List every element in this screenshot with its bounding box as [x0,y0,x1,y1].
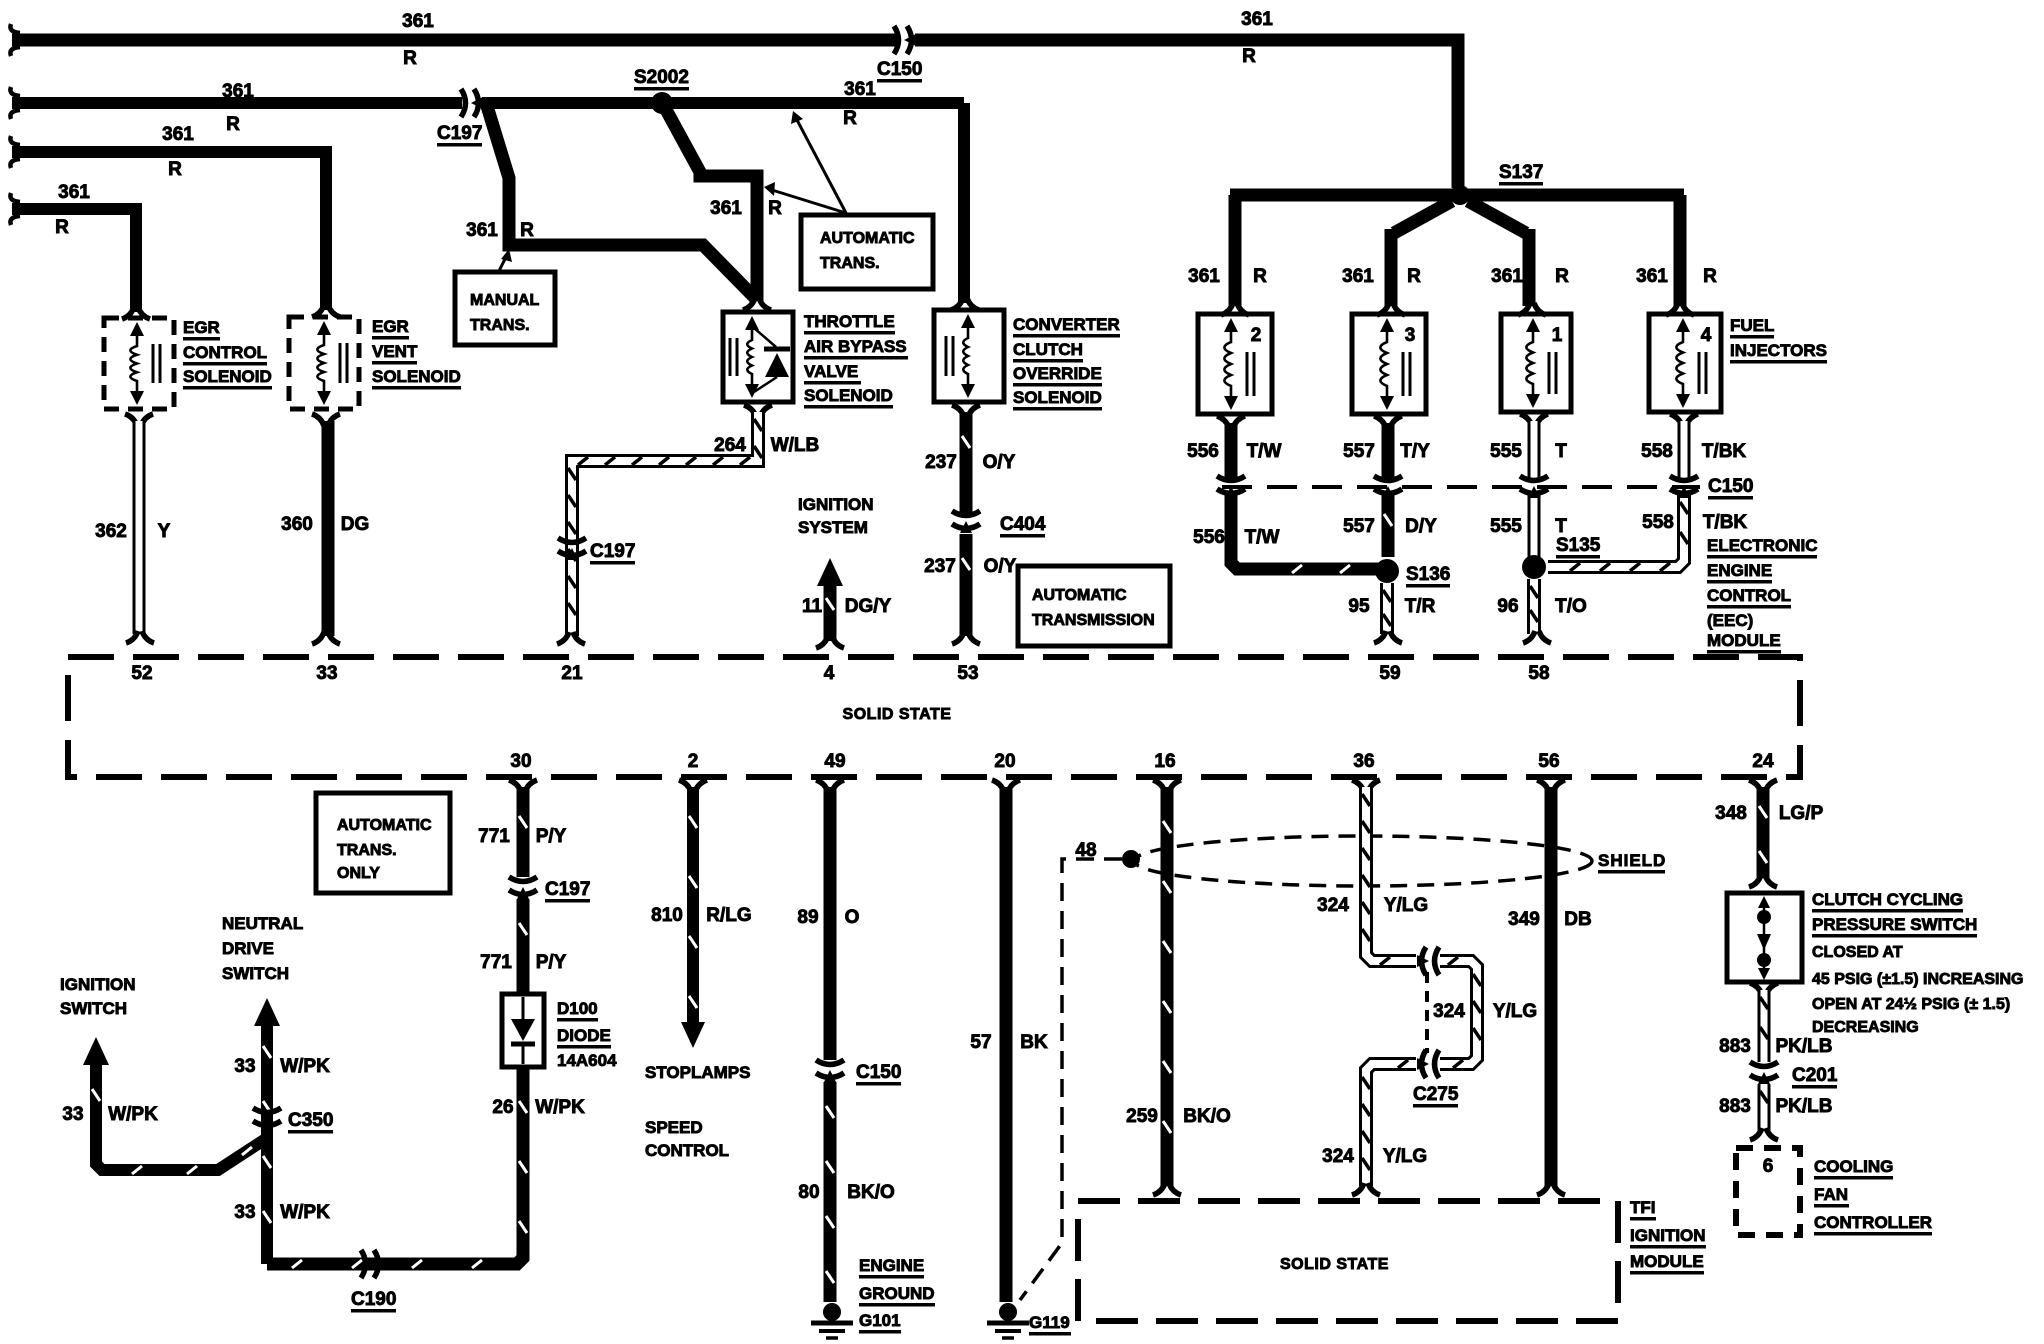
label ENGINE GROUND G101 [859,1256,935,1334]
svg-text:R: R [768,198,782,219]
label 771 P/Y lower [480,952,566,973]
svg-text:361: 361 [162,124,194,145]
label NEUTRAL DRIVE SWITCH [222,914,303,983]
label 555 T upper [1490,441,1567,462]
label TFI IGNITION MODULE [1630,1198,1706,1275]
svg-text:P/Y: P/Y [536,826,567,847]
label 324 Y/LG bottom [1322,1146,1427,1167]
label 883 PK/LB lower [1719,1096,1832,1117]
svg-text:W/LB: W/LB [771,435,820,456]
svg-text:EGR: EGR [183,318,220,337]
label 361 R wire4 [55,182,90,238]
svg-text:52: 52 [131,663,152,684]
svg-text:R: R [520,220,534,241]
svg-text:S135: S135 [1556,535,1601,556]
svg-text:555: 555 [1490,441,1522,462]
svg-text:FUEL: FUEL [1730,316,1774,335]
svg-text:T/Y: T/Y [1400,441,1430,462]
svg-text:11: 11 [802,596,823,617]
svg-text:361: 361 [58,182,90,203]
svg-text:MODULE: MODULE [1707,631,1781,650]
wire 558 T/BK injector4 to splice S135 [1548,414,1698,571]
svg-text:33: 33 [234,1202,255,1223]
svg-text:3: 3 [1405,325,1416,346]
label 264 W/LB [714,435,819,456]
label THROTTLE AIR BYPASS VALVE SOLENOID [804,312,908,409]
svg-text:30: 30 [510,751,531,772]
ground G119 [987,1303,1029,1338]
svg-text:LG/P: LG/P [1779,803,1824,824]
wire 883 PK/LB upper [1750,983,1778,1062]
svg-text:C197: C197 [437,123,482,144]
svg-text:SOLENOID: SOLENOID [804,386,893,405]
EEC top pin numbers [131,663,1549,684]
label 96 T/O [1497,596,1586,617]
diode D100 [502,994,544,1067]
svg-text:R/LG: R/LG [706,905,751,926]
svg-text:237: 237 [924,556,956,577]
svg-text:T: T [1555,516,1567,537]
svg-text:ENGINE: ENGINE [859,1256,924,1275]
fuel injector 3 [1352,314,1426,414]
svg-text:SOLENOID: SOLENOID [183,367,272,386]
label 33 W/PK ignition [62,1104,158,1125]
label 237 O/Y lower [924,556,1017,577]
svg-text:COOLING: COOLING [1814,1157,1893,1176]
svg-text:EGR: EGR [372,317,409,336]
svg-text:348: 348 [1715,803,1747,824]
svg-text:361: 361 [1342,266,1374,287]
svg-text:349: 349 [1508,909,1540,930]
svg-text:4: 4 [824,663,835,684]
svg-text:VALVE: VALVE [804,362,858,381]
svg-text:T: T [1555,441,1567,462]
connector C350 [253,1108,281,1130]
svg-text:557: 557 [1343,441,1375,462]
label 361 R manual branch [466,220,534,241]
svg-text:T/O: T/O [1555,596,1587,617]
svg-text:SYSTEM: SYSTEM [798,518,868,537]
label 883 PK/LB upper [1719,1036,1832,1057]
svg-text:361: 361 [1188,266,1220,287]
svg-text:AUTOMATIC: AUTOMATIC [820,230,915,247]
label 349 DB [1508,909,1592,930]
label CONVERTER CLUTCH OVERRIDE SOLENOID [1013,315,1120,411]
connector C197 bottom [509,877,537,899]
svg-text:TRANS.: TRANS. [337,842,397,859]
svg-text:361: 361 [402,11,434,32]
svg-text:VENT: VENT [372,342,418,361]
svg-text:R: R [55,217,69,238]
label EGR VENT SOLENOID [372,317,461,390]
svg-text:810: 810 [651,905,683,926]
svg-text:T/W: T/W [1245,527,1280,548]
svg-text:O: O [845,907,860,928]
EGR control solenoid [104,318,174,409]
wire 810 R/LG pin 2 to stoplamps [679,780,707,1048]
svg-text:361: 361 [222,81,254,102]
svg-text:P/Y: P/Y [536,952,567,973]
clutch cycling pressure switch [1727,893,1802,982]
connector C150 injector4 [1670,476,1698,498]
svg-text:49: 49 [824,751,845,772]
svg-text:C150: C150 [1708,476,1753,497]
svg-text:GROUND: GROUND [859,1284,935,1303]
splice S2002 [651,92,673,114]
label CLUTCH CYCLING PRESSURE SWITCH text block [1812,890,2024,1036]
svg-text:D100: D100 [557,999,598,1018]
svg-text:Y/LG: Y/LG [1383,1146,1427,1167]
label EGR CONTROL SOLENOID [183,318,272,390]
svg-text:CONTROL: CONTROL [183,343,267,362]
svg-text:C201: C201 [1792,1065,1838,1086]
svg-text:C350: C350 [288,1110,333,1131]
label 361 R wire1 right [1241,9,1273,67]
wire 33 W/PK neutral drive switch [254,998,280,1264]
shield ellipse [1134,836,1592,886]
label 348 LG/P [1715,803,1823,824]
svg-text:DRIVE: DRIVE [222,939,274,958]
svg-text:W/PK: W/PK [535,1097,585,1118]
label ELECTRONIC ENGINE CONTROL (EEC) MODULE [1707,536,1818,654]
label 361 R wire3 [162,124,194,180]
svg-text:95: 95 [1348,596,1370,617]
label 556 T/W lower [1193,527,1279,548]
label 555 T lower [1490,516,1567,537]
svg-text:556: 556 [1193,527,1225,548]
svg-text:R: R [1555,266,1569,287]
label COOLING FAN CONTROLLER [1814,1157,1932,1236]
connector C150 bottom [816,1060,844,1082]
svg-text:R: R [403,48,417,69]
svg-text:R: R [1253,266,1267,287]
wire 96 T/O from S135 to pin 58 [1523,579,1551,643]
svg-text:INJECTORS: INJECTORS [1730,341,1827,360]
svg-text:771: 771 [480,952,512,973]
svg-text:BK/O: BK/O [1183,1106,1231,1127]
label 57 BK [970,1032,1048,1053]
svg-text:33: 33 [234,1056,255,1077]
TFI ignition module box [1078,1201,1618,1321]
svg-text:C197: C197 [590,541,635,562]
box MANUAL TRANS [455,272,555,345]
label IGNITION SYSTEM [798,495,874,537]
svg-text:D/Y: D/Y [1405,516,1437,537]
svg-text:T/BK: T/BK [1703,512,1748,533]
svg-text:IGNITION: IGNITION [60,975,136,994]
connector C404 [952,511,980,533]
label 557 T/Y [1343,441,1430,462]
svg-text:96: 96 [1497,596,1518,617]
dashed mate line C275 [1425,972,1429,1053]
connector C275 upper half [1417,947,1439,975]
label 810 R/LG [651,905,752,926]
svg-text:CONTROL: CONTROL [1707,586,1791,605]
svg-text:361: 361 [710,198,742,219]
svg-text:S136: S136 [1406,564,1450,585]
svg-text:SWITCH: SWITCH [60,999,127,1018]
svg-text:58: 58 [1528,663,1549,684]
label 361 R wire2 right [843,79,876,129]
svg-text:CLUTCH: CLUTCH [1013,340,1083,359]
svg-text:362: 362 [95,521,127,542]
svg-text:DB: DB [1564,909,1591,930]
svg-text:360: 360 [281,514,313,535]
wire 557 injector3 to splice S136 [1374,416,1402,557]
svg-text:C150: C150 [856,1062,901,1083]
wire 95 T/R from S136 to pin 59 [1374,583,1402,643]
svg-text:21: 21 [561,663,583,684]
connector C275 lower half [1417,1050,1439,1078]
wire 348 LG/P pin 24 [1749,780,1777,887]
svg-text:PK/LB: PK/LB [1776,1036,1833,1057]
svg-text:CONTROL: CONTROL [645,1141,729,1160]
svg-text:OVERRIDE: OVERRIDE [1013,364,1102,383]
svg-text:20: 20 [994,751,1015,772]
label 33 W/PK below C350 [234,1202,330,1223]
svg-text:R: R [1407,266,1421,287]
wire 48 shield drain to G119 [1020,859,1122,1300]
svg-text:DG: DG [341,514,370,535]
svg-text:264: 264 [714,435,746,456]
svg-text:883: 883 [1719,1036,1751,1057]
svg-text:C404: C404 [1000,514,1046,535]
annotation arrow automatic trans to wire2 [791,111,846,213]
wire 11 DG/Y to ignition system from pin 4 [816,558,844,648]
splice shield drain dot [1122,850,1140,868]
wire 883 PK/LB lower [1750,1084,1778,1140]
wire 360 DG from EGR vent to pin 33 [312,414,340,644]
wire 555 T injector1 to splice S135 [1520,414,1548,557]
label 558 T/BK lower [1642,512,1747,533]
svg-text:PRESSURE SWITCH: PRESSURE SWITCH [1812,915,1977,934]
svg-text:AIR BYPASS: AIR BYPASS [804,337,907,356]
svg-text:556: 556 [1187,441,1219,462]
svg-text:R: R [1703,266,1717,287]
svg-text:36: 36 [1353,751,1374,772]
wire 57 BK pin 20 [992,780,1020,1302]
svg-text:ELECTRONIC: ELECTRONIC [1707,536,1818,555]
svg-text:26: 26 [492,1097,513,1118]
svg-text:237: 237 [925,452,957,473]
svg-text:G101: G101 [859,1311,901,1330]
svg-text:16: 16 [1154,751,1175,772]
wire 361 R feed 1 (top horizontal) [10,24,1458,188]
svg-text:SOLID STATE: SOLID STATE [1280,1256,1389,1273]
svg-text:R: R [843,108,857,129]
label 11 DG/Y [802,596,892,617]
svg-text:558: 558 [1641,441,1673,462]
svg-text:G119: G119 [1029,1313,1070,1332]
label 361 R wire2 left [222,81,254,135]
splice S136 [1375,559,1399,583]
svg-text:24: 24 [1752,751,1774,772]
svg-text:57: 57 [970,1032,991,1053]
label 556 T/W upper [1187,441,1281,462]
svg-text:89: 89 [797,907,818,928]
EGR vent solenoid [289,317,359,409]
wire 324 Y/LG C275 jumper [1440,957,1481,1068]
svg-text:STOPLAMPS: STOPLAMPS [645,1063,750,1082]
svg-text:361: 361 [1241,9,1273,30]
svg-text:S2002: S2002 [634,67,689,88]
connector C197 lower [558,538,586,560]
svg-text:IGNITION: IGNITION [1630,1226,1706,1245]
svg-text:883: 883 [1719,1096,1751,1117]
svg-text:THROTTLE: THROTTLE [804,312,895,331]
svg-text:33: 33 [316,663,337,684]
box AUTOMATIC TRANSMISSION [1018,566,1170,646]
wire 349 DB pin 56 to TFI [1537,780,1565,1195]
wire 324 Y/LG pin36 lower to TFI [1352,1060,1416,1195]
label FUEL INJECTORS [1730,316,1827,364]
svg-text:R: R [1242,46,1256,67]
label 237 O/Y upper [925,452,1016,473]
svg-text:555: 555 [1490,516,1522,537]
label 557 D/Y [1343,516,1437,537]
wire 264 W/LB from throttle solenoid to pin 21 [557,405,772,644]
svg-text:CLUTCH CYCLING: CLUTCH CYCLING [1812,890,1963,909]
svg-text:MODULE: MODULE [1630,1252,1704,1271]
svg-text:33: 33 [62,1104,83,1125]
box AUTOMATIC TRANS [801,215,933,289]
svg-text:T/W: T/W [1247,441,1282,462]
svg-text:C150: C150 [877,59,922,80]
svg-text:4: 4 [1701,325,1712,346]
svg-text:W/PK: W/PK [108,1104,158,1125]
svg-text:SOLENOID: SOLENOID [1013,388,1102,407]
splice S137 [1450,185,1470,205]
wire 89 O pin 49 [816,780,844,1060]
svg-text:324: 324 [1322,1146,1354,1167]
wire 556 T/W injector2 to splice S136 [1217,416,1378,573]
svg-text:CLOSED AT: CLOSED AT [1812,944,1903,961]
annotation arrow manual trans [499,249,512,271]
wire 80 BK/O to engine ground [826,1082,834,1302]
svg-text:SPEED: SPEED [645,1118,703,1137]
svg-text:361: 361 [466,220,498,241]
label 95 T/R [1348,596,1435,617]
wire 362 Y from EGR control to pin 52 [125,414,154,643]
label 324 Y/LG middle [1433,1001,1537,1022]
svg-text:BK: BK [1020,1032,1048,1053]
wire 361 R feed 4 [10,193,150,319]
svg-text:O/Y: O/Y [983,452,1016,473]
svg-text:324: 324 [1317,895,1349,916]
svg-text:TRANS.: TRANS. [470,317,530,334]
svg-text:C197: C197 [545,879,590,900]
cooling fan controller box [1736,1148,1800,1235]
label 259 BK/O [1126,1106,1231,1127]
connector C190 [361,1250,383,1278]
svg-text:558: 558 [1642,512,1674,533]
wire 259 BK/O pin 16 to TFI [1153,780,1181,1195]
connector C150 injector1 [1520,476,1548,498]
fuel injector 1 [1501,314,1571,412]
svg-text:IGNITION: IGNITION [798,495,874,514]
svg-text:C190: C190 [351,1289,396,1310]
fuel injector 2 [1198,314,1272,414]
svg-text:ENGINE: ENGINE [1707,561,1772,580]
svg-text:TFI: TFI [1630,1198,1656,1217]
connector C150 on wire1 [894,26,916,54]
label 362 Y [95,521,171,542]
EEC module box (solid state) [68,657,1800,777]
svg-text:14A604: 14A604 [557,1051,617,1070]
wire 26 W/PK diode to C190 run [267,1067,527,1268]
label 558 T/BK upper [1641,441,1746,462]
connector C197 on wire2 [461,89,483,117]
label 26 W/PK [492,1097,585,1118]
svg-text:NEUTRAL: NEUTRAL [222,914,303,933]
svg-text:C275: C275 [1413,1084,1459,1105]
label 361 R automatic branch [710,198,782,219]
label 33 W/PK above C350 [234,1056,330,1077]
box AUTOMATIC TRANS ONLY [316,793,450,893]
svg-text:Y: Y [158,521,171,542]
svg-text:DG/Y: DG/Y [845,596,892,617]
wire manual-trans branch from C197 to throttle solenoid [487,106,771,310]
svg-text:DECREASING: DECREASING [1812,1019,1919,1036]
svg-text:6: 6 [1763,1156,1774,1177]
svg-text:TRANS.: TRANS. [820,255,880,272]
svg-text:SOLENOID: SOLENOID [372,367,461,386]
svg-text:CONVERTER: CONVERTER [1013,315,1120,334]
svg-text:S137: S137 [1499,162,1543,183]
svg-text:Y/LG: Y/LG [1384,895,1428,916]
svg-text:MANUAL: MANUAL [470,292,540,309]
wire 33 W/PK ignition switch [83,1037,264,1174]
connector C150 injector2 [1217,476,1245,498]
svg-text:80: 80 [798,1182,819,1203]
svg-text:O/Y: O/Y [984,556,1017,577]
connector C201 [1750,1062,1778,1084]
svg-text:Y/LG: Y/LG [1493,1001,1537,1022]
svg-text:FAN: FAN [1814,1185,1848,1204]
splice S135 [1522,555,1546,579]
svg-text:R: R [226,114,240,135]
svg-text:OPEN AT 24½ PSIG (± 1.5): OPEN AT 24½ PSIG (± 1.5) [1812,996,2010,1013]
svg-text:T/R: T/R [1405,596,1436,617]
svg-text:DIODE: DIODE [557,1026,611,1045]
svg-text:AUTOMATIC: AUTOMATIC [1032,587,1127,604]
svg-text:W/PK: W/PK [280,1056,330,1077]
svg-text:1: 1 [1552,325,1563,346]
svg-text:557: 557 [1343,516,1375,537]
connector C150 injector3 [1374,476,1402,498]
svg-text:324: 324 [1433,1001,1465,1022]
converter clutch override solenoid [934,310,1004,402]
svg-text:R: R [168,159,182,180]
labels 361 R injector feeds [1188,266,1717,287]
svg-text:2: 2 [1251,325,1262,346]
svg-text:ONLY: ONLY [337,865,380,882]
svg-text:59: 59 [1379,663,1400,684]
svg-text:53: 53 [957,663,978,684]
svg-text:SWITCH: SWITCH [222,964,289,983]
svg-text:BK/O: BK/O [847,1182,895,1203]
svg-text:361: 361 [1491,266,1523,287]
ground G101 [811,1303,853,1338]
label D100 DIODE 14A604 [557,999,617,1070]
svg-text:45 PSIG (±1.5) INCREASING: 45 PSIG (±1.5) INCREASING [1812,971,2024,988]
svg-text:48: 48 [1075,840,1096,861]
svg-text:SHIELD: SHIELD [1598,851,1666,870]
svg-text:361: 361 [1636,266,1668,287]
wire 361 R feed 3 [10,136,340,317]
svg-text:TRANSMISSION: TRANSMISSION [1032,612,1155,629]
svg-text:771: 771 [478,826,510,847]
